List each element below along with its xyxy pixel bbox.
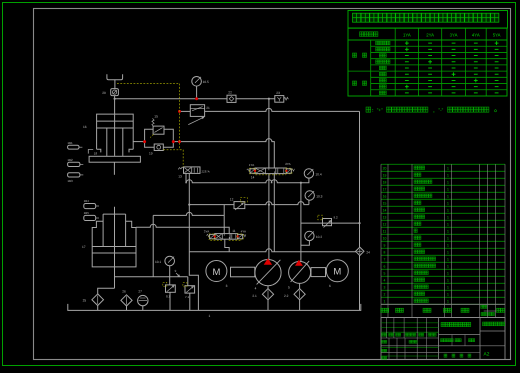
row labels 快速下行 慢速加压 保压 泄压回程 停止 顶出 退回 压边 停止: [376, 41, 379, 45]
svg-text:9: 9: [384, 244, 386, 248]
pump 5 riser x300.9: [300, 183, 302, 262]
gauge 10.4 stem: [301, 178, 309, 183]
junction red dots: [143, 140, 146, 143]
motor 3: [206, 261, 227, 282]
pilot vertical x179.5: [179, 84, 181, 150]
svg-text:22: 22: [228, 91, 232, 95]
svg-text:19: 19: [149, 152, 153, 156]
title block 液压系统原理图: [441, 322, 445, 326]
combo loop lower branch: [145, 142, 174, 148]
wire y98 cont: [236, 98, 275, 100]
svg-text:1: 1: [447, 258, 449, 262]
svg-text:15: 15: [383, 202, 387, 206]
pilot line from valve 20: [117, 83, 180, 85]
svg-text:11: 11: [383, 230, 387, 234]
pilot box relief 15: [150, 134, 153, 137]
svg-text:5: 5: [288, 285, 290, 289]
wire return drop to tank: [189, 252, 198, 311]
pump 4 outlet triangle: [264, 258, 272, 264]
pressure relay 23: [275, 96, 284, 103]
svg-text:1: 1: [447, 279, 449, 283]
bracket 18: [88, 150, 93, 154]
svg-text:1: 1: [447, 209, 449, 213]
svg-text:3YA: 3YA: [450, 32, 458, 37]
svg-text:26: 26: [122, 289, 126, 293]
pressure gauge 10.3: [305, 191, 314, 200]
travel switch 1B1: [68, 145, 79, 149]
pressure gauge 10.1: [165, 256, 175, 266]
wire y183 line to pump5 top node: [186, 180, 301, 183]
svg-text:M: M: [333, 267, 341, 278]
svg-text:1: 1: [447, 195, 449, 199]
svg-text:18: 18: [94, 151, 98, 155]
wire lineA drop to drain: [152, 215, 154, 276]
pilot dashes valve 11: [210, 239, 223, 241]
svg-text:19: 19: [383, 174, 387, 178]
svg-text:1: 1: [447, 181, 449, 185]
shut-off valve 20: [111, 89, 119, 96]
svg-text:4: 4: [384, 279, 386, 283]
travel switch 1B3: [68, 173, 80, 177]
pilot valve 9.2: [323, 219, 332, 226]
svg-text:12: 12: [383, 223, 387, 227]
svg-text:1B2: 1B2: [67, 158, 73, 162]
svg-text:17: 17: [383, 188, 387, 192]
svg-text:2.2: 2.2: [284, 294, 289, 298]
travel switch 1B4: [84, 204, 96, 209]
travel switch 1B5: [84, 215, 96, 220]
svg-text:10: 10: [383, 237, 387, 241]
solenoid valve 11: [215, 234, 238, 240]
svg-text:20: 20: [102, 91, 106, 95]
directional valve 13: [184, 167, 201, 174]
svg-text:18: 18: [383, 181, 387, 185]
svg-text:5YA: 5YA: [493, 32, 501, 37]
svg-text:14: 14: [251, 176, 255, 180]
wire y141 to valve 14: [180, 139, 275, 168]
svg-text:,: ,: [433, 108, 434, 113]
oil filler funnel: [107, 74, 123, 79]
svg-text:1B5: 1B5: [84, 211, 90, 215]
svg-text:15: 15: [154, 114, 158, 118]
wire return line y251: [189, 249, 356, 252]
svg-text:24: 24: [366, 251, 370, 255]
back-pressure valve 7.1: [185, 286, 195, 293]
throttle valve 12: [234, 202, 245, 209]
pump 5: [289, 261, 311, 283]
solenoid 1YA: [250, 169, 255, 173]
svg-text:7: 7: [384, 258, 386, 262]
svg-text:1: 1: [447, 265, 449, 269]
wire valve 13 left port to y183 line: [184, 173, 187, 182]
cycle table title box: [348, 11, 508, 29]
gauge 10.3 stem: [308, 200, 310, 204]
svg-text:10.1: 10.1: [155, 260, 161, 264]
svg-text:1: 1: [447, 237, 449, 241]
wire gauge 10.5 stem: [196, 86, 198, 99]
node at main line: [114, 98, 116, 100]
wire lower cyl bottom drain: [98, 214, 115, 294]
svg-text:3: 3: [384, 286, 386, 290]
wire valve11 P riser: [223, 205, 225, 234]
wire pilot to valve 21: [180, 110, 191, 112]
svg-text:9.2: 9.2: [334, 215, 339, 219]
svg-text:1: 1: [447, 202, 449, 206]
combo loop upper branch: [145, 129, 174, 141]
svg-text:2.1: 2.1: [252, 294, 257, 298]
svg-text:5: 5: [384, 272, 386, 276]
svg-text:"-": "-": [439, 108, 444, 113]
wire right vertical drop x359: [359, 111, 361, 247]
motor 6: [326, 260, 348, 282]
svg-text:4YA: 4YA: [472, 32, 480, 37]
solenoid 3YA: [210, 234, 215, 238]
level gauge 27: [138, 295, 148, 305]
pump 5 outlet triangle: [295, 260, 303, 266]
svg-text:27: 27: [138, 289, 142, 293]
svg-text:10.3: 10.3: [316, 195, 322, 199]
svg-text:1: 1: [447, 251, 449, 255]
svg-text:2YA: 2YA: [285, 162, 290, 166]
wire valve 13 right port long drop: [188, 173, 190, 251]
svg-text:13: 13: [383, 216, 387, 220]
svg-text:1: 1: [447, 244, 449, 248]
pilot box 9.2: [318, 215, 323, 220]
orifice 9 arrow: [176, 273, 180, 277]
svg-text:1: 1: [447, 167, 449, 171]
pump4 riser x268.9: [268, 99, 270, 168]
check valve 19: [154, 144, 163, 151]
air breather 26: [121, 295, 132, 306]
coupling 5-6: [311, 268, 326, 277]
wire line A rodside: [153, 212, 224, 215]
slider crosshead: [89, 156, 140, 162]
svg-text:8: 8: [384, 251, 386, 255]
svg-text:23: 23: [276, 91, 280, 95]
svg-text:2237A: 2237A: [202, 169, 210, 173]
pressure gauge 10.4: [304, 169, 313, 178]
suction filter 2.1: [267, 286, 269, 289]
pilot from check 19: [163, 149, 183, 151]
travel switch 1B2: [68, 162, 80, 166]
svg-text:1: 1: [384, 300, 386, 304]
svg-text:10.5: 10.5: [203, 80, 209, 84]
svg-text:1: 1: [447, 293, 449, 297]
wire main line y98: [115, 98, 227, 100]
svg-text:2: 2: [384, 293, 386, 297]
svg-text:6: 6: [384, 265, 386, 269]
back-pressure valve 8.1: [169, 277, 171, 285]
svg-text:1: 1: [209, 314, 211, 318]
svg-text:7.1: 7.1: [185, 295, 190, 299]
pressure gauge 10.5: [192, 77, 202, 87]
svg-text:21: 21: [206, 106, 210, 110]
upper cylinder 16: [97, 114, 134, 149]
wire valve11 T drop: [225, 239, 229, 252]
svg-text:M: M: [212, 267, 220, 278]
svg-text:1B1: 1B1: [67, 141, 73, 145]
svg-text:1: 1: [447, 188, 449, 192]
svg-text:4: 4: [255, 287, 257, 291]
valve14 B port drop x274.3: [273, 174, 275, 252]
pilot box 7.1: [183, 283, 187, 287]
svg-text:1: 1: [447, 216, 449, 220]
table plus/minus data: [405, 42, 409, 44]
svg-text:1B4: 1B4: [84, 199, 90, 203]
pressure gauge 10.2: [305, 231, 314, 240]
wire drain line y276.8: [114, 276, 187, 278]
node pump line top: [268, 98, 270, 100]
solenoid valve 14: [255, 168, 286, 174]
svg-text:A2: A2: [484, 352, 490, 358]
svg-text:17: 17: [82, 245, 86, 249]
svg-text:3: 3: [226, 284, 228, 288]
svg-text:1: 1: [447, 286, 449, 290]
solenoid 2YA: [286, 169, 291, 173]
unloading valve line y223: [301, 222, 360, 224]
cycle table grid: [348, 28, 507, 96]
svg-text:1: 1: [447, 174, 449, 178]
pilot box 8.1: [163, 282, 167, 286]
svg-text:11: 11: [232, 229, 236, 233]
svg-text:1YA: 1YA: [249, 163, 254, 167]
svg-text:6: 6: [329, 284, 331, 288]
title block grid: [381, 318, 505, 360]
svg-text:1: 1: [447, 230, 449, 234]
svg-text:1: 1: [447, 223, 449, 227]
pilot into valve 13: [182, 150, 184, 167]
svg-text:16: 16: [83, 125, 87, 129]
solenoid 4YA: [238, 234, 243, 238]
note 注："+"表示电磁铁通电，"-"表示电磁铁断电。: [366, 107, 371, 112]
header 动作顺序: [360, 32, 364, 37]
ram rod: [114, 96, 116, 156]
svg-text:13: 13: [178, 175, 182, 179]
svg-text:14: 14: [383, 209, 387, 213]
wire combo to pilot junction: [173, 141, 179, 143]
title block 大台面液压机: [483, 322, 487, 326]
svg-text:1B3: 1B3: [67, 179, 73, 183]
check valve 22: [227, 95, 236, 102]
svg-text:20: 20: [383, 167, 387, 171]
wire y111 from valve 21 to right drop: [205, 108, 360, 111]
group 下缸: [353, 81, 357, 85]
filter 24: [356, 247, 364, 255]
svg-text:25: 25: [83, 298, 87, 302]
svg-text:12: 12: [230, 198, 234, 202]
proportional relief valve 21: [190, 105, 204, 117]
pilot dashes valve 14: [256, 174, 286, 176]
svg-text:4YA: 4YA: [241, 229, 246, 233]
svg-text:3YA: 3YA: [204, 230, 209, 234]
svg-text:1YA: 1YA: [403, 32, 411, 37]
suction filter 2.2: [299, 283, 301, 288]
svg-text:"+": "+": [377, 108, 383, 113]
svg-text:10.2: 10.2: [316, 235, 322, 239]
BOM parts list grid: [381, 163, 505, 165]
main pump 4: [255, 260, 281, 286]
svg-text:1: 1: [447, 300, 449, 304]
pilot box valve 12: [240, 198, 247, 203]
magnetic filter 25: [92, 294, 104, 306]
coupling 3-4: [231, 267, 255, 277]
svg-text:16: 16: [383, 195, 387, 199]
wire funnel to valve 20: [114, 80, 116, 89]
svg-text:10.4: 10.4: [315, 172, 321, 176]
group 上缸: [353, 53, 357, 57]
oil tank 1: [68, 304, 361, 311]
cycle table title text 大台面液压机液压系统设计动作循环表: [353, 13, 361, 22]
BOM header row 序号 代号 名称 数量 材料 重量 备注: [381, 317, 505, 319]
title block texts: [441, 339, 444, 342]
svg-text:2YA: 2YA: [426, 32, 434, 37]
wire upper cyl to combo: [133, 141, 145, 143]
lower cylinder 17: [102, 214, 104, 246]
wire y204 line: [189, 202, 309, 205]
wire line B: [136, 224, 229, 233]
svg-text:1: 1: [447, 272, 449, 276]
relief valve 15: [153, 126, 164, 134]
